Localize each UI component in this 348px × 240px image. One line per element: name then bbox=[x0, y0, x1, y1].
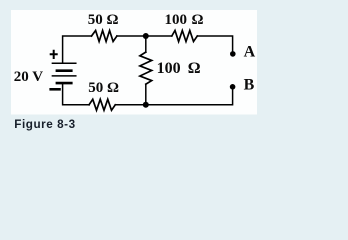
svg-text:B: B bbox=[244, 77, 255, 94]
svg-text:100: 100 bbox=[157, 60, 181, 77]
svg-text:50 Ω: 50 Ω bbox=[88, 80, 119, 96]
svg-text:Ω: Ω bbox=[188, 60, 201, 77]
svg-text:Ω: Ω bbox=[192, 12, 204, 28]
svg-text:A: A bbox=[244, 44, 256, 61]
svg-text:100: 100 bbox=[165, 12, 188, 28]
svg-text:50 Ω: 50 Ω bbox=[88, 12, 119, 28]
svg-text:20 V: 20 V bbox=[14, 69, 43, 85]
svg-text:Figure 8-3: Figure 8-3 bbox=[14, 118, 75, 131]
